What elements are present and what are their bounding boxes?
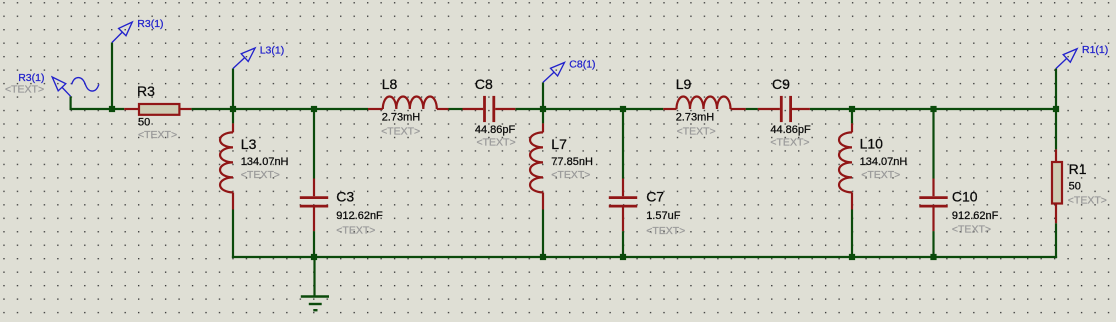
svg-text:<TEXT>: <TEXT> (381, 126, 420, 138)
svg-text:<TEXT>: <TEXT> (5, 83, 44, 95)
svg-text:50: 50 (138, 117, 150, 129)
svg-text:<TEXT>: <TEXT> (770, 136, 809, 148)
svg-text:L10: L10 (860, 136, 884, 152)
svg-text:L3: L3 (241, 136, 257, 152)
svg-text:<TEXT>: <TEXT> (952, 224, 991, 236)
svg-text:<TEXT>: <TEXT> (677, 126, 716, 138)
svg-text:C8: C8 (475, 76, 493, 92)
svg-text:C9: C9 (772, 76, 790, 92)
svg-text:R3: R3 (137, 83, 155, 99)
svg-text:R3(1): R3(1) (137, 18, 163, 30)
svg-text:44.86pF: 44.86pF (770, 124, 811, 136)
svg-text:R1: R1 (1069, 161, 1087, 177)
svg-text:<TEXT>: <TEXT> (1068, 194, 1107, 206)
svg-text:134.07nH: 134.07nH (241, 156, 289, 168)
svg-text:44.86pF: 44.86pF (475, 124, 516, 136)
svg-text:2.73mH: 2.73mH (676, 112, 715, 124)
svg-text:77.85nH: 77.85nH (551, 156, 593, 168)
svg-text:L9: L9 (676, 76, 692, 92)
svg-text:C10: C10 (952, 189, 978, 205)
svg-text:134.07nH: 134.07nH (860, 156, 908, 168)
svg-text:<TEXT>: <TEXT> (477, 136, 516, 148)
svg-text:<TEXT>: <TEXT> (646, 225, 685, 237)
svg-text:L7: L7 (551, 136, 567, 152)
svg-text:L8: L8 (382, 76, 398, 92)
svg-text:R3(1): R3(1) (18, 72, 44, 84)
svg-text:<TEXT>: <TEXT> (336, 224, 375, 236)
svg-text:50: 50 (1069, 181, 1081, 193)
svg-text:L3(1): L3(1) (260, 45, 285, 57)
svg-text:<TEXT>: <TEXT> (861, 169, 900, 181)
svg-text:C3: C3 (336, 189, 354, 205)
svg-text:C7: C7 (646, 189, 664, 205)
svg-text:912.62nF: 912.62nF (336, 210, 383, 222)
svg-text:2.73mH: 2.73mH (382, 112, 421, 124)
svg-text:912.62nF: 912.62nF (952, 210, 999, 222)
svg-text:R1(1): R1(1) (1082, 44, 1108, 56)
svg-text:<TEXT>: <TEXT> (241, 169, 280, 181)
svg-text:<TEXT>: <TEXT> (551, 169, 590, 181)
svg-text:C8(1): C8(1) (569, 58, 595, 70)
svg-text:1.57uF: 1.57uF (646, 210, 681, 222)
svg-text:<TEXT>: <TEXT> (138, 129, 177, 141)
